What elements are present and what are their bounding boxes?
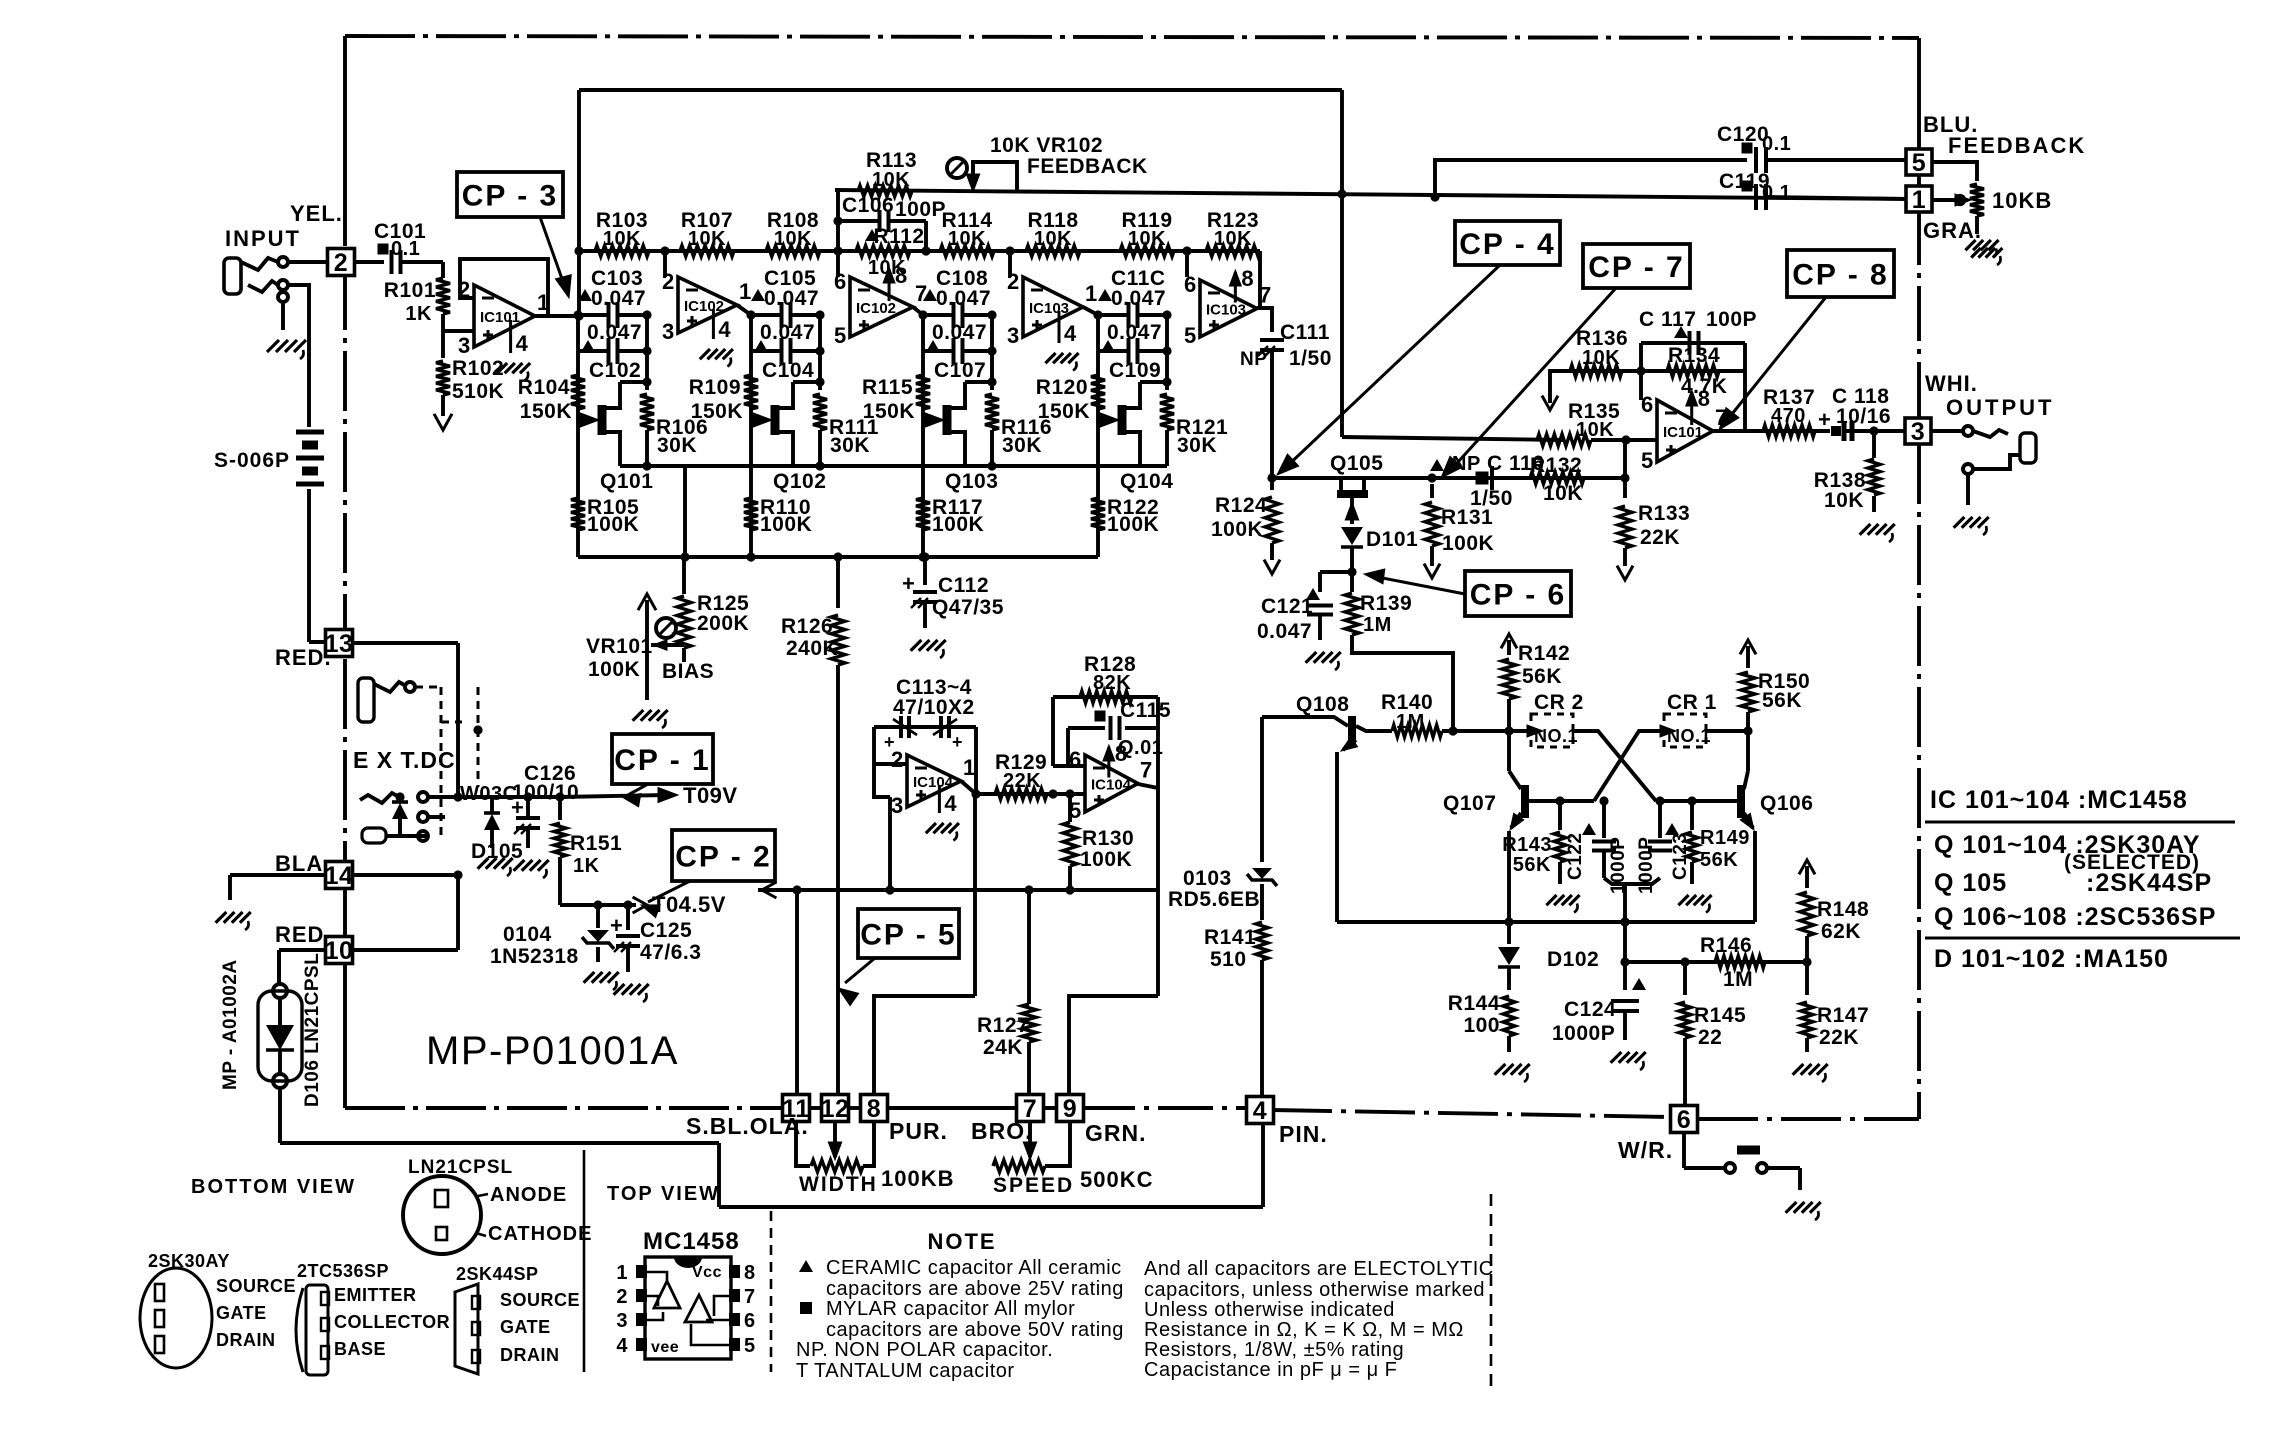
svg-text::2SK44SP: :2SK44SP <box>2086 869 2212 897</box>
svg-text:C107: C107 <box>934 359 986 382</box>
svg-text:10: 10 <box>325 937 354 965</box>
svg-text:10K: 10K <box>1214 228 1252 250</box>
svg-text:5: 5 <box>834 323 847 348</box>
svg-text:R133: R133 <box>1638 502 1690 525</box>
svg-text:D106 LN21CPSL: D106 LN21CPSL <box>302 953 323 1107</box>
svg-text:Q108: Q108 <box>1296 693 1349 716</box>
svg-text:4.7K: 4.7K <box>1681 375 1727 398</box>
svg-text:200K: 200K <box>697 612 749 635</box>
svg-text:Q106: Q106 <box>1760 792 1813 815</box>
svg-text:100KB: 100KB <box>881 1166 954 1191</box>
svg-text:BASE: BASE <box>334 1339 386 1359</box>
svg-text:CP - 6: CP - 6 <box>1470 578 1566 611</box>
svg-text:56K: 56K <box>1522 665 1562 688</box>
svg-text:100K: 100K <box>1442 532 1494 555</box>
svg-text:100K: 100K <box>1107 513 1159 536</box>
svg-text:R147: R147 <box>1817 1004 1869 1027</box>
svg-text:CP - 7: CP - 7 <box>1588 251 1684 284</box>
svg-text:8: 8 <box>895 263 908 288</box>
svg-text:1000P: 1000P <box>1552 1022 1615 1045</box>
svg-text:30K: 30K <box>830 434 870 457</box>
svg-text:1: 1 <box>963 755 976 780</box>
svg-text:13: 13 <box>325 630 354 658</box>
svg-text:C111: C111 <box>1280 321 1330 344</box>
svg-text:+: + <box>952 732 963 752</box>
svg-text:D102: D102 <box>1547 948 1599 971</box>
svg-text:3: 3 <box>458 333 471 358</box>
svg-text:4: 4 <box>1253 1097 1267 1125</box>
svg-text:1/50: 1/50 <box>1289 347 1332 370</box>
svg-text:R124: R124 <box>1215 494 1267 517</box>
svg-text:IC103: IC103 <box>1029 300 1069 317</box>
svg-text:4: 4 <box>516 331 529 356</box>
svg-text:R131: R131 <box>1441 506 1493 529</box>
svg-text:510K: 510K <box>452 380 504 403</box>
svg-text:0.047: 0.047 <box>936 287 991 310</box>
svg-text:C112: C112 <box>938 574 989 597</box>
svg-text:WHI.: WHI. <box>1925 371 1978 396</box>
svg-text:2TC536SP: 2TC536SP <box>297 1261 389 1281</box>
svg-text:R120: R120 <box>1036 376 1088 399</box>
svg-text:30K: 30K <box>1177 434 1217 457</box>
svg-text:22K: 22K <box>1819 1026 1859 1049</box>
svg-text:10K: 10K <box>1128 228 1166 250</box>
svg-text:47/6.3: 47/6.3 <box>640 941 701 964</box>
svg-text:4: 4 <box>1064 321 1077 346</box>
svg-text:4: 4 <box>616 1335 628 1357</box>
svg-text:5: 5 <box>1184 323 1197 348</box>
svg-text:Resistors, 1/8W, ±5% rating: Resistors, 1/8W, ±5% rating <box>1144 1339 1404 1361</box>
svg-text:2SK30AY: 2SK30AY <box>148 1251 230 1271</box>
svg-text:0104: 0104 <box>503 923 552 946</box>
svg-text:BIAS: BIAS <box>662 660 714 683</box>
svg-text:R139: R139 <box>1360 592 1412 615</box>
svg-text:10K: 10K <box>872 169 910 191</box>
svg-text:E X T.DC: E X T.DC <box>353 747 456 773</box>
svg-text:1M: 1M <box>1363 614 1392 636</box>
svg-text:OUTPUT: OUTPUT <box>1946 395 2054 420</box>
svg-text:1: 1 <box>616 1262 628 1284</box>
svg-text:INPUT: INPUT <box>225 226 301 251</box>
svg-text:IC104: IC104 <box>1091 777 1132 794</box>
svg-text:2: 2 <box>334 249 348 277</box>
svg-text:MC1458: MC1458 <box>643 1228 740 1255</box>
svg-text:CERAMIC capacitor All ceramic: CERAMIC capacitor All ceramic <box>826 1257 1122 1279</box>
svg-text:R151: R151 <box>570 832 622 855</box>
svg-text:5: 5 <box>1641 448 1654 473</box>
svg-text:8: 8 <box>867 1095 881 1123</box>
svg-text:24K: 24K <box>983 1036 1023 1059</box>
svg-text:56K: 56K <box>1762 689 1802 712</box>
svg-text:CR 1: CR 1 <box>1667 691 1717 714</box>
svg-text:12: 12 <box>821 1095 850 1123</box>
svg-text:C115: C115 <box>1120 699 1171 722</box>
svg-text:47/10X2: 47/10X2 <box>893 696 975 719</box>
svg-text:6: 6 <box>744 1310 756 1332</box>
svg-text:R143: R143 <box>1502 834 1552 856</box>
svg-text:1000P: 1000P <box>1636 837 1657 894</box>
svg-text:100: 100 <box>1463 1014 1500 1037</box>
svg-text:CP - 2: CP - 2 <box>675 840 771 873</box>
svg-text:R144: R144 <box>1448 992 1500 1015</box>
svg-text:3: 3 <box>662 319 675 344</box>
svg-text:100K: 100K <box>1211 518 1263 541</box>
svg-text:1: 1 <box>1085 281 1098 306</box>
svg-text:R141: R141 <box>1204 926 1256 949</box>
svg-text:4: 4 <box>944 791 957 816</box>
svg-text:Q103: Q103 <box>945 470 998 493</box>
svg-text:GATE: GATE <box>216 1303 267 1323</box>
svg-text:6: 6 <box>1069 747 1082 772</box>
svg-text:IC101: IC101 <box>480 309 520 326</box>
svg-text:C122: C122 <box>1565 833 1586 880</box>
svg-text:PIN.: PIN. <box>1279 1121 1328 1147</box>
svg-text:R127: R127 <box>977 1014 1029 1037</box>
svg-text:RD5.6EB: RD5.6EB <box>1168 888 1260 911</box>
svg-text:IC101: IC101 <box>1663 424 1703 441</box>
svg-text:IC104: IC104 <box>913 774 954 791</box>
svg-text:W/R.: W/R. <box>1618 1137 1673 1163</box>
svg-text:10K: 10K <box>1034 228 1072 250</box>
svg-text:150K: 150K <box>520 400 572 423</box>
svg-text:R130: R130 <box>1082 827 1134 850</box>
svg-text:RED.: RED. <box>275 645 332 670</box>
svg-text:8: 8 <box>1241 266 1254 291</box>
svg-text:CP - 5: CP - 5 <box>860 918 956 951</box>
svg-text:10K: 10K <box>774 228 812 250</box>
svg-text:DRAIN: DRAIN <box>500 1345 560 1365</box>
svg-text:R102: R102 <box>452 357 504 380</box>
svg-text:capacitors are above 25V ratin: capacitors are above 25V rating <box>826 1278 1124 1300</box>
svg-text:0.1: 0.1 <box>1762 182 1791 204</box>
svg-text:Q 105: Q 105 <box>1934 869 2007 897</box>
svg-text:And all capacitors are ELECTOL: And all capacitors are ELECTOLYTIC <box>1144 1258 1494 1280</box>
svg-text:2: 2 <box>891 747 904 772</box>
svg-text:100K: 100K <box>587 513 639 536</box>
svg-text:0.047: 0.047 <box>760 321 815 344</box>
svg-text:WIDTH: WIDTH <box>799 1173 878 1196</box>
svg-text:R148: R148 <box>1817 898 1869 921</box>
svg-text:R132: R132 <box>1530 454 1582 477</box>
svg-text:0.1: 0.1 <box>1762 133 1791 155</box>
svg-text:IC102: IC102 <box>684 298 724 315</box>
svg-text:GRA.: GRA. <box>1923 218 1982 243</box>
svg-text:MP-P01001A: MP-P01001A <box>426 1029 679 1073</box>
svg-text:0.047: 0.047 <box>1111 287 1166 310</box>
svg-text:7: 7 <box>744 1286 756 1308</box>
svg-text:82K: 82K <box>1093 672 1131 694</box>
svg-text:CP - 3: CP - 3 <box>462 179 558 212</box>
svg-text:C102: C102 <box>589 359 641 382</box>
svg-text:YEL.: YEL. <box>290 201 343 226</box>
svg-text:capacitors, unless otherwise m: capacitors, unless otherwise marked <box>1144 1279 1485 1301</box>
svg-text:10K: 10K <box>948 228 986 250</box>
svg-text:22: 22 <box>1698 1026 1722 1049</box>
svg-text:1K: 1K <box>405 303 432 325</box>
svg-text:capacitors are above 50V ratin: capacitors are above 50V rating <box>826 1319 1124 1341</box>
svg-text:PUR.: PUR. <box>889 1118 948 1144</box>
svg-text:Vcc: Vcc <box>692 1264 722 1281</box>
svg-text:T TANTALUM capacitor: T TANTALUM capacitor <box>796 1360 1015 1382</box>
svg-text:3: 3 <box>616 1310 628 1332</box>
svg-text:NO.1: NO.1 <box>1667 726 1711 746</box>
svg-text:CATHODE: CATHODE <box>488 1223 592 1245</box>
svg-text:IC102: IC102 <box>856 300 896 317</box>
svg-text:0103: 0103 <box>1183 867 1232 890</box>
svg-text:Q104: Q104 <box>1120 470 1173 493</box>
svg-text:7: 7 <box>915 281 928 306</box>
svg-text:R145: R145 <box>1694 1004 1746 1027</box>
svg-text:CP - 4: CP - 4 <box>1459 228 1555 261</box>
svg-text:0.047: 0.047 <box>587 321 642 344</box>
svg-text:IC 101~104 :MC1458: IC 101~104 :MC1458 <box>1930 786 2188 814</box>
svg-text:D105: D105 <box>471 840 523 863</box>
svg-text:LN21CPSL: LN21CPSL <box>408 1157 513 1178</box>
svg-text:vee: vee <box>651 1339 679 1356</box>
svg-text:7: 7 <box>1259 283 1272 308</box>
svg-text:0.047: 0.047 <box>932 321 987 344</box>
svg-text:CP - 1: CP - 1 <box>614 744 710 777</box>
svg-text:500KC: 500KC <box>1080 1167 1153 1192</box>
svg-text:100K: 100K <box>588 658 640 681</box>
svg-text:1M: 1M <box>1396 711 1425 733</box>
svg-text:Q 106~108 :2SC536SP: Q 106~108 :2SC536SP <box>1934 903 2216 931</box>
svg-text:NP. NON POLAR capacitor.: NP. NON POLAR capacitor. <box>796 1339 1053 1361</box>
svg-text:510: 510 <box>1210 948 1247 971</box>
svg-text:SOURCE: SOURCE <box>216 1276 296 1296</box>
svg-text:0.1: 0.1 <box>391 238 420 260</box>
svg-text:D101: D101 <box>1366 528 1418 551</box>
svg-text:7: 7 <box>1140 758 1153 783</box>
svg-text:C121: C121 <box>1261 595 1313 618</box>
svg-text:Capacistance in pF μ = μ F: Capacistance in pF μ = μ F <box>1144 1359 1397 1381</box>
svg-text:0.047: 0.047 <box>1107 321 1162 344</box>
svg-text:3: 3 <box>1007 323 1020 348</box>
svg-text:150K: 150K <box>863 400 915 423</box>
svg-text:2SK44SP: 2SK44SP <box>456 1264 539 1284</box>
svg-text:100P: 100P <box>895 198 946 221</box>
svg-text:1: 1 <box>739 279 752 304</box>
svg-text:30K: 30K <box>657 434 697 457</box>
svg-text:DRAIN: DRAIN <box>216 1330 276 1350</box>
svg-text:150K: 150K <box>1038 400 1090 423</box>
svg-text:R149: R149 <box>1700 827 1750 849</box>
svg-text:W03C: W03C <box>460 783 518 805</box>
svg-text:5: 5 <box>1912 149 1926 177</box>
svg-text:Q102: Q102 <box>773 470 826 493</box>
svg-text:0.047: 0.047 <box>764 287 819 310</box>
svg-text:D 101~102 :MA150: D 101~102 :MA150 <box>1934 945 2169 973</box>
svg-text:10K: 10K <box>1582 347 1620 369</box>
svg-text:RED.: RED. <box>275 922 332 947</box>
svg-text:GATE: GATE <box>500 1317 551 1337</box>
svg-text:FEEDBACK: FEEDBACK <box>1948 133 2086 158</box>
svg-text:470: 470 <box>1771 405 1806 427</box>
svg-text:30K: 30K <box>1002 434 1042 457</box>
svg-text:1: 1 <box>1912 186 1926 214</box>
svg-text:10K: 10K <box>688 228 726 250</box>
svg-text:CP - 8: CP - 8 <box>1792 258 1888 291</box>
svg-text:3: 3 <box>1911 418 1925 446</box>
svg-text:C109: C109 <box>1109 359 1161 382</box>
svg-text:10KB: 10KB <box>1992 188 2052 213</box>
svg-text:100K: 100K <box>760 513 812 536</box>
svg-text:56K: 56K <box>1700 849 1738 871</box>
svg-text:+: + <box>1818 407 1831 432</box>
svg-text:0.047: 0.047 <box>1257 620 1312 643</box>
svg-text:100P: 100P <box>1706 308 1757 331</box>
svg-text:R146: R146 <box>1700 934 1752 957</box>
svg-text:2: 2 <box>616 1286 628 1308</box>
svg-text:100K: 100K <box>932 513 984 536</box>
svg-text:EMITTER: EMITTER <box>334 1285 417 1305</box>
svg-text:CR 2: CR 2 <box>1534 691 1584 714</box>
svg-text:Resistance in Ω, K = K Ω, M =: Resistance in Ω, K = K Ω, M = MΩ <box>1144 1319 1464 1341</box>
svg-text:10K VR102: 10K VR102 <box>990 134 1103 157</box>
svg-text:BOTTOM VIEW: BOTTOM VIEW <box>191 1176 356 1198</box>
svg-text:10K: 10K <box>1576 419 1614 441</box>
svg-text:1N52318: 1N52318 <box>490 945 579 968</box>
svg-text:10K: 10K <box>1543 482 1583 505</box>
svg-text:100/10: 100/10 <box>512 781 579 804</box>
svg-text:Q101: Q101 <box>600 470 653 493</box>
svg-text:R134: R134 <box>1668 344 1720 367</box>
svg-text:T09V: T09V <box>683 783 738 808</box>
svg-text:3: 3 <box>891 793 904 818</box>
svg-text:5: 5 <box>744 1335 756 1357</box>
svg-text:R104: R104 <box>518 376 570 399</box>
svg-text:56K: 56K <box>1513 854 1551 876</box>
svg-text:ANODE: ANODE <box>490 1184 567 1206</box>
svg-text:SPEED: SPEED <box>993 1174 1074 1197</box>
svg-text:6: 6 <box>1677 1106 1691 1134</box>
svg-text:FEEDBACK: FEEDBACK <box>1027 155 1148 178</box>
svg-text:IC103: IC103 <box>1206 302 1246 319</box>
svg-text:MP - A01002A: MP - A01002A <box>220 959 241 1090</box>
svg-text:9: 9 <box>1063 1095 1077 1123</box>
svg-text:NO.1: NO.1 <box>1534 726 1578 746</box>
svg-text:8: 8 <box>744 1262 756 1284</box>
svg-text:NOTE: NOTE <box>927 1229 996 1254</box>
svg-text:62K: 62K <box>1821 920 1861 943</box>
svg-text:150K: 150K <box>691 400 743 423</box>
svg-text:Q47/35: Q47/35 <box>932 596 1004 619</box>
svg-text:240K: 240K <box>786 637 838 660</box>
svg-text:0.047: 0.047 <box>591 287 646 310</box>
svg-text:C104: C104 <box>762 359 814 382</box>
svg-text:R109: R109 <box>689 376 741 399</box>
svg-text:10K: 10K <box>603 228 641 250</box>
svg-text:C124: C124 <box>1564 998 1616 1021</box>
svg-text:MYLAR capacitor All mylor: MYLAR capacitor All mylor <box>826 1298 1075 1320</box>
svg-text:6: 6 <box>834 269 847 294</box>
svg-text:8: 8 <box>1115 741 1128 766</box>
svg-text:14: 14 <box>325 862 354 890</box>
svg-text:R142: R142 <box>1518 642 1570 665</box>
svg-text:SOURCE: SOURCE <box>500 1290 580 1310</box>
svg-text:C 117: C 117 <box>1639 308 1696 331</box>
svg-text:100K: 100K <box>1080 848 1132 871</box>
svg-text:Q107: Q107 <box>1443 792 1496 815</box>
svg-text:TOP VIEW: TOP VIEW <box>607 1183 720 1205</box>
svg-text:22K: 22K <box>1640 526 1680 549</box>
svg-text:BLA.: BLA. <box>275 851 330 876</box>
svg-text:GRN.: GRN. <box>1085 1120 1147 1146</box>
svg-text:Q105: Q105 <box>1330 452 1383 475</box>
svg-text:VR101: VR101 <box>586 635 653 658</box>
svg-text:Unless otherwise indicated: Unless otherwise indicated <box>1144 1299 1395 1321</box>
svg-text:4: 4 <box>718 317 731 342</box>
svg-text:10K: 10K <box>1824 489 1864 512</box>
svg-text:NP: NP <box>1240 349 1267 370</box>
svg-text:R126: R126 <box>781 615 833 638</box>
svg-text:C125: C125 <box>640 919 692 942</box>
svg-text:R101: R101 <box>384 279 436 302</box>
svg-text:S-006P: S-006P <box>214 449 290 472</box>
svg-text:R115: R115 <box>862 376 913 399</box>
svg-text:22K: 22K <box>1003 770 1041 792</box>
svg-text:COLLECTOR: COLLECTOR <box>334 1312 450 1332</box>
svg-text:S.BL.OLA.: S.BL.OLA. <box>686 1113 809 1139</box>
svg-text:BRO.: BRO. <box>971 1118 1033 1144</box>
svg-text:1M: 1M <box>1723 968 1753 991</box>
svg-text:1K: 1K <box>573 855 600 877</box>
